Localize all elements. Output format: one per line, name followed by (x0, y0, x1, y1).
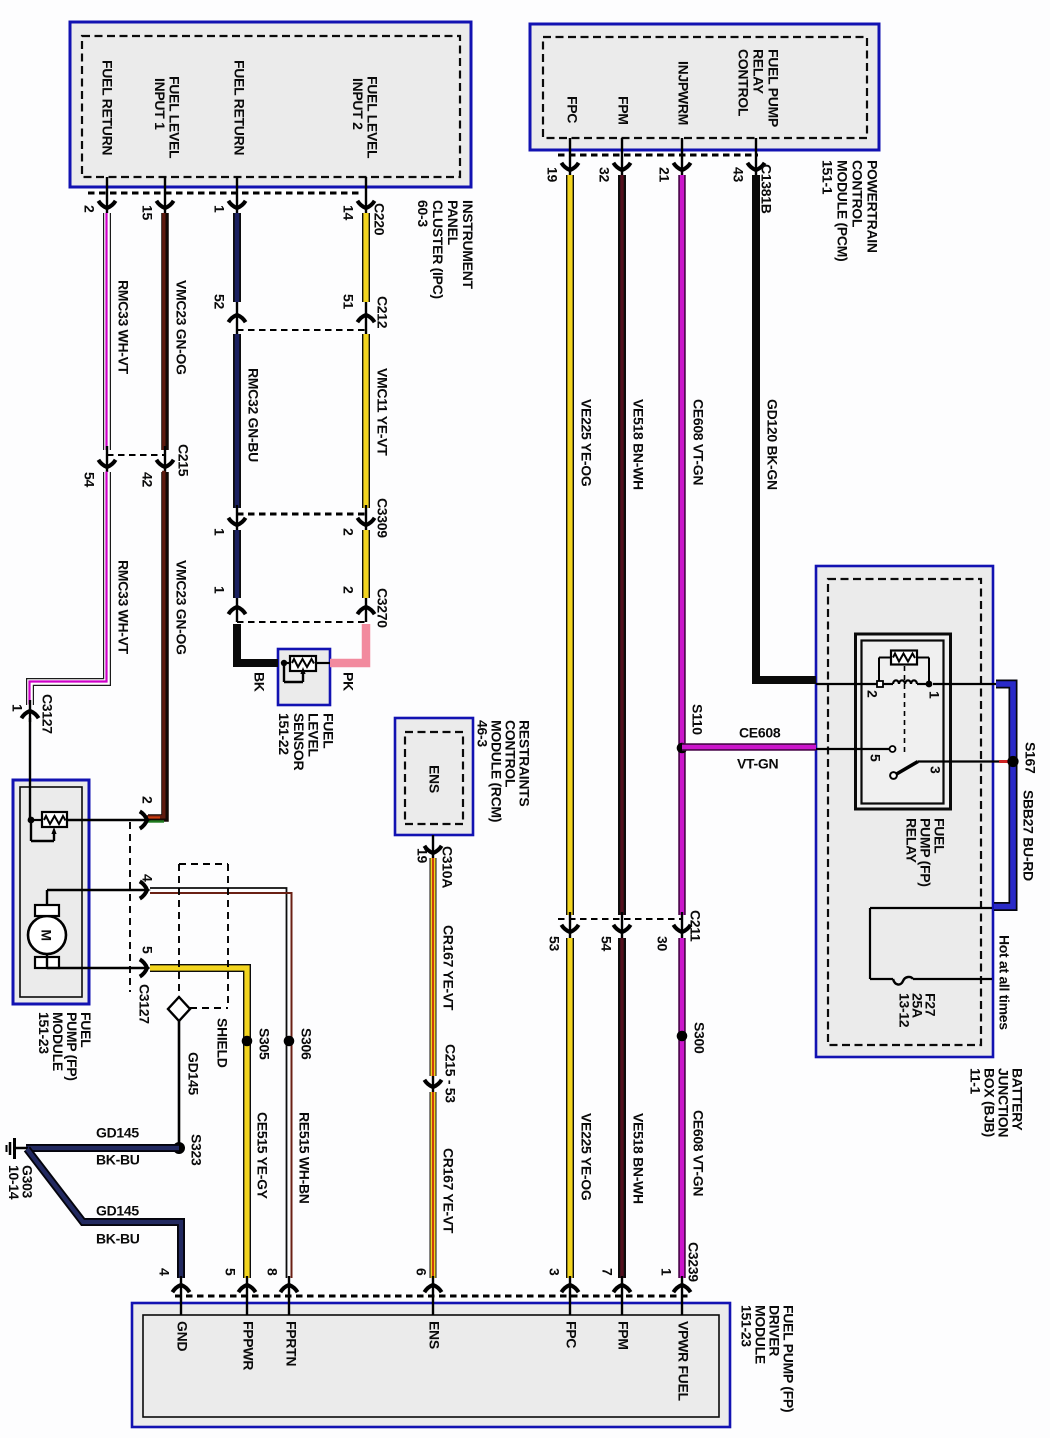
svg-text:FPC: FPC (564, 96, 580, 123)
module box: Fuel Pump (FP) Module (13, 780, 89, 1004)
svg-text:INJPWRM: INJPWRM (675, 61, 691, 125)
svg-text:3: 3 (546, 1268, 562, 1276)
wire CE608 segment break at C211 (681, 912, 683, 940)
connector arrow FPDM GND (172, 1281, 189, 1292)
connector C212 dashed line (237, 329, 366, 331)
wire stub into FPDM FPRTN (288, 1276, 290, 1315)
connector arrow C211 pin 53 (561, 925, 578, 936)
svg-text:54: 54 (598, 936, 614, 951)
FP module junction dot at resistor (30, 819, 42, 821)
connector arrow C211 pin 54 (613, 925, 630, 936)
connector arrow RCM pin 19 (424, 846, 441, 857)
wire VMC11 YE-VT segment C212 to C3309 (362, 334, 370, 508)
wire stub into FPDM GND (180, 1276, 182, 1315)
svg-text:RMC33 WH-VT: RMC33 WH-VT (115, 280, 131, 375)
connector C211 dashed line (558, 918, 682, 920)
wire stub into FPDM FPM (621, 1276, 623, 1315)
wire CE608 VT-GN branch to relay (682, 743, 816, 751)
svg-text:GD145: GD145 (96, 1203, 139, 1219)
wire CE515 YE-GY from FP module pin 5 (150, 968, 247, 1278)
svg-text:C211: C211 (687, 910, 703, 942)
svg-text:FUEL PUMP: FUEL PUMP (765, 49, 781, 127)
svg-text:CLUSTER (IPC): CLUSTER (IPC) (430, 200, 446, 299)
svg-text:PK: PK (340, 672, 356, 691)
wire BU-RD red stripe stub at S167 (999, 760, 1008, 763)
fuse F27 25A (870, 907, 992, 909)
wire VMC11 YE-VT segment to C212 (362, 213, 370, 302)
svg-text:2: 2 (340, 586, 356, 594)
svg-text:CR167 YE-VT: CR167 YE-VT (440, 925, 456, 1011)
svg-text:S167: S167 (1022, 742, 1038, 774)
svg-text:VE518 BN-WH: VE518 BN-WH (630, 399, 646, 490)
svg-text:SHIELD: SHIELD (214, 1018, 230, 1068)
wire CE608 VT-GN upper segment (678, 175, 686, 915)
svg-text:13-12: 13-12 (896, 993, 912, 1028)
svg-text:14: 14 (340, 205, 356, 220)
relay switch terminal pin 5 (890, 746, 896, 752)
svg-text:FUEL RETURN: FUEL RETURN (99, 60, 115, 155)
svg-text:GD145: GD145 (96, 1125, 139, 1141)
relay resistor link left (879, 657, 891, 659)
svg-text:C310A: C310A (439, 846, 455, 888)
connector arrow C3127 pin 5 (140, 959, 151, 976)
svg-text:RE515 WH-BN: RE515 WH-BN (296, 1112, 312, 1204)
module box: Instrument Panel Cluster (IPC) (70, 22, 471, 187)
svg-text:32: 32 (596, 167, 612, 182)
wire RMC32 GN-BU segment C3309 to C3270 (233, 530, 241, 598)
wire GD145 BK-BU to FPDM GND (27, 1149, 181, 1278)
svg-text:42: 42 (139, 472, 155, 487)
connector arrow C3309 pin 2 (357, 518, 374, 529)
relay coil (inductor) (893, 680, 917, 684)
svg-text:INPUT 2: INPUT 2 (350, 78, 366, 130)
relay coil feed line from GD120 (816, 683, 877, 685)
svg-text:C220: C220 (371, 203, 387, 236)
svg-text:CE608: CE608 (739, 725, 781, 741)
svg-text:S323: S323 (188, 1134, 204, 1166)
connector arrow C215 pin 54 (98, 460, 115, 471)
shield drain diamond (168, 997, 190, 1021)
relay coil terminal pin 1 (926, 681, 933, 688)
module box: Restraints Control Module (RCM) (395, 718, 473, 835)
wire CR167 YE-VT upper segment (430, 858, 437, 1076)
wire VMC11 YE-VT segment C3309 to C3270 (362, 530, 370, 598)
connector arrow IPC pin 14 (357, 201, 374, 212)
connector arrow FPDM FPM (613, 1281, 630, 1292)
wire stub IPC pin 14 (365, 177, 367, 213)
svg-text:VPWR FUEL: VPWR FUEL (675, 1321, 691, 1401)
connector arrow FPDM ENS (424, 1281, 441, 1292)
module box: Powertrain Control Module (PCM) (530, 24, 879, 150)
svg-text:C215 - 53: C215 - 53 (442, 1044, 458, 1103)
connector arrow FPDM FPPWR (238, 1281, 255, 1292)
svg-text:GND: GND (174, 1321, 190, 1351)
svg-text:3: 3 (927, 766, 943, 774)
splice S305 (242, 1036, 253, 1047)
svg-text:C1381B: C1381B (758, 164, 774, 214)
svg-text:VMC11 YE-VT: VMC11 YE-VT (374, 368, 390, 456)
svg-text:151-23: 151-23 (738, 1305, 754, 1347)
svg-text:51: 51 (340, 294, 356, 309)
svg-text:ENS: ENS (426, 765, 442, 793)
wire CE608 VT-GN lower segment (678, 938, 686, 1278)
wire RMC32 GN-BU segment to C212 (233, 213, 241, 302)
svg-text:21: 21 (656, 167, 672, 182)
svg-text:CONTROL: CONTROL (735, 49, 751, 117)
connector arrow PCM pin 43 (747, 163, 764, 174)
connector arrow C3309 pin 1 (228, 518, 245, 529)
connector arrow FPDM VPWR (673, 1281, 690, 1292)
svg-text:ENS: ENS (426, 1321, 442, 1349)
svg-text:1: 1 (926, 691, 942, 699)
svg-text:6: 6 (413, 1268, 429, 1276)
svg-text:M: M (39, 929, 55, 940)
svg-text:2: 2 (139, 796, 155, 804)
svg-text:CE608 VT-GN: CE608 VT-GN (690, 1110, 706, 1196)
splice S323 (173, 1142, 185, 1154)
wire into FP module pin 1 (29, 718, 31, 820)
connector C3239/FPDM dashed line (175, 1295, 690, 1298)
svg-text:POWERTRAIN: POWERTRAIN (864, 160, 880, 253)
relay pin 3 line (918, 760, 999, 762)
svg-text:VT-GN: VT-GN (737, 756, 778, 772)
wire RMC32 GN-BU segment C212 to C3309 (233, 334, 241, 508)
connector arrow PCM pin 21 (673, 163, 690, 174)
svg-text:FPM: FPM (615, 96, 631, 125)
svg-text:GD145: GD145 (185, 1052, 201, 1095)
wire stub into FPDM FPC (569, 1276, 571, 1315)
wire stub IPC pin 2 (106, 177, 108, 213)
svg-text:5: 5 (867, 754, 883, 762)
connector arrow IPC pin 2 (98, 201, 115, 212)
connector arrow C3127 pin 2 (140, 811, 151, 828)
wire stub PCM pin 43 (755, 138, 757, 175)
connector arrow IPC pin 1 (228, 201, 245, 212)
svg-text:1: 1 (211, 586, 227, 594)
wire BK black to fuel level sensor (237, 624, 278, 663)
connector arrow C212 pin 52 (228, 311, 245, 322)
svg-text:46-3: 46-3 (474, 720, 490, 747)
svg-text:INPUT 1: INPUT 1 (152, 78, 168, 130)
svg-text:C212: C212 (374, 296, 390, 329)
svg-text:53: 53 (546, 936, 562, 951)
relay coil terminal pin 2 (877, 681, 883, 687)
svg-text:S110: S110 (689, 704, 705, 735)
connector C220 dashed line (88, 192, 362, 195)
svg-text:7: 7 (599, 1268, 615, 1276)
wire VE518 segment break at C211 (621, 912, 623, 940)
svg-text:151-23: 151-23 (36, 1012, 52, 1054)
svg-text:PANEL: PANEL (445, 200, 461, 246)
svg-text:52: 52 (211, 294, 227, 309)
svg-text:FUEL RETURN: FUEL RETURN (231, 60, 247, 155)
fuel level sensor resistor (290, 656, 316, 671)
connector arrow IPC pin 15 (156, 201, 173, 212)
wire GD145 BK-BU to ground G303 (26, 1144, 179, 1152)
wire SBB27 BU-RD (994, 684, 1013, 907)
svg-text:30: 30 (654, 936, 670, 951)
svg-text:SBB27 BU-RD: SBB27 BU-RD (1020, 790, 1036, 881)
svg-text:60-3: 60-3 (415, 200, 431, 227)
wire stub IPC pin 1 (236, 177, 238, 213)
svg-text:1: 1 (9, 704, 25, 712)
svg-text:CE515 YE-GY: CE515 YE-GY (254, 1112, 270, 1200)
svg-text:43: 43 (730, 167, 746, 182)
fuel level sensor wiper (284, 662, 290, 664)
wire stub PCM pin 32 (621, 138, 623, 175)
wire RMC33 WH-VT upper segment (103, 213, 111, 450)
splice S306 (284, 1036, 295, 1047)
connector C3270 dashed line (237, 621, 366, 623)
svg-text:C3127: C3127 (136, 984, 152, 1024)
shield dashed outline (178, 864, 180, 997)
relay switch blade (894, 762, 918, 776)
wire stub IPC pin 15 (164, 177, 166, 213)
wire GD120 BK-GN (756, 175, 816, 680)
wire stub into FPDM VPWR (681, 1276, 683, 1315)
wire RE515 WH-BN pair from FP module pin 4 (150, 888, 287, 1278)
connector arrow C215 pin 42 (156, 460, 173, 471)
svg-text:VE225 YE-OG: VE225 YE-OG (578, 399, 594, 487)
svg-text:2: 2 (864, 690, 880, 698)
shield drain wire GD145 (178, 1021, 181, 1145)
svg-text:10-14: 10-14 (6, 1165, 22, 1200)
svg-text:CR167 YE-VT: CR167 YE-VT (440, 1148, 456, 1234)
relay suppression resistor (891, 651, 917, 665)
wire VE225 YE-OG lower segment (566, 938, 574, 1278)
connector arrow FPDM FPC (561, 1281, 578, 1292)
svg-text:VMC23 GN-OG: VMC23 GN-OG (173, 560, 189, 655)
svg-text:FUEL: FUEL (320, 713, 336, 749)
svg-text:C3270: C3270 (374, 588, 390, 628)
connector C3309 dashed line (237, 513, 366, 516)
svg-text:1: 1 (211, 205, 227, 213)
svg-text:BK-BU: BK-BU (96, 1231, 140, 1247)
svg-text:S306: S306 (298, 1028, 314, 1060)
connector arrow FPDM FPRTN (280, 1281, 297, 1292)
connector arrow C211 pin 30 (673, 925, 690, 936)
wire VMC23 GN-OG upper segment (161, 213, 169, 450)
svg-text:C3127: C3127 (39, 694, 55, 734)
FP module pin 2 line (67, 819, 146, 822)
svg-text:S305: S305 (256, 1028, 272, 1060)
wire VE225 YE-OG upper segment (566, 175, 574, 915)
svg-text:151-1: 151-1 (819, 160, 835, 195)
svg-text:MODULE (PCM): MODULE (PCM) (834, 160, 850, 261)
svg-text:2: 2 (81, 205, 97, 213)
svg-text:5: 5 (222, 1268, 238, 1276)
splice S110 (677, 743, 688, 754)
wire VE225 segment break at C211 (569, 912, 571, 940)
connector C215 dashed line (107, 454, 165, 456)
wire CR167 YE-VT lower segment (430, 1092, 437, 1278)
svg-text:CONTROL: CONTROL (849, 160, 865, 228)
wire stub PCM pin 19 (569, 138, 571, 175)
svg-text:54: 54 (81, 472, 97, 487)
module box: Fuel Level Sensor (278, 649, 330, 705)
wire VMC23 GN-OG lower segment (148, 472, 165, 818)
svg-text:VMC23 GN-OG: VMC23 GN-OG (173, 280, 189, 375)
svg-text:2: 2 (340, 528, 356, 536)
svg-text:5: 5 (139, 946, 155, 954)
wire stub PCM pin 21 (681, 138, 683, 175)
svg-text:RELAY: RELAY (903, 818, 919, 864)
svg-text:S300: S300 (691, 1022, 707, 1054)
splice S300 (677, 1031, 688, 1042)
motor M of fuel pump (28, 916, 66, 954)
svg-text:19: 19 (414, 848, 430, 863)
svg-text:GD120 BK-GN: GD120 BK-GN (764, 399, 780, 490)
wire stub RCM pin 19 (432, 835, 434, 858)
svg-text:CE608 VT-GN: CE608 VT-GN (690, 399, 706, 485)
FP module wiper arrow (30, 820, 32, 841)
FP module internal resistor (fuel pump check valve resistor) (42, 812, 67, 827)
module box: Fuel Pump (FP) Driver Module (132, 1303, 730, 1427)
svg-text:SENSOR: SENSOR (291, 713, 307, 771)
ground symbol G303 (15, 1147, 28, 1150)
svg-text:4: 4 (156, 1268, 172, 1276)
svg-text:C3309: C3309 (374, 498, 390, 538)
connector C3127 dashed line (129, 822, 131, 992)
svg-text:15: 15 (139, 205, 155, 220)
svg-text:INSTRUMENT: INSTRUMENT (460, 200, 476, 290)
relay box FP relay (856, 634, 951, 809)
wire VE518 BN-WH lower segment (618, 938, 626, 1278)
svg-text:RMC32 GN-BU: RMC32 GN-BU (245, 368, 261, 462)
FP module pin 5 line (46, 954, 48, 968)
connector arrow PCM pin 32 (613, 163, 630, 174)
connector C215-53 inline arrow (432, 1076, 434, 1094)
connector arrow C3270 pin 2 (357, 603, 374, 614)
svg-text:RMC33 WH-VT: RMC33 WH-VT (115, 560, 131, 655)
svg-text:151-22: 151-22 (276, 713, 292, 755)
wire VE518 BN-WH upper segment (618, 175, 626, 915)
svg-text:1: 1 (658, 1268, 674, 1276)
wire RMC33 vertical to C3127 (29, 700, 31, 722)
module box: Battery Junction Box (BJB) (816, 566, 993, 1057)
connector arrow C3127 pin 4 (140, 881, 151, 898)
svg-text:FPRTN: FPRTN (283, 1321, 299, 1366)
svg-text:C215: C215 (175, 444, 191, 477)
splice S167 (1007, 756, 1018, 767)
connector arrow PCM pin 19 (561, 163, 578, 174)
svg-text:RELAY: RELAY (750, 49, 766, 95)
svg-text:BK-BU: BK-BU (96, 1152, 140, 1168)
relay pin 5 line (816, 748, 889, 750)
svg-text:C3239: C3239 (685, 1242, 701, 1282)
svg-text:19: 19 (544, 167, 560, 182)
svg-text:VE225 YE-OG: VE225 YE-OG (578, 1113, 594, 1201)
wire PK pink to fuel level sensor (330, 624, 366, 663)
svg-text:4: 4 (139, 874, 155, 882)
wire RMC33 WH-VT lower segment (30, 472, 107, 705)
connector arrow C3270 pin 1 (228, 603, 245, 614)
wire link coil pin1 to SBB27 (933, 683, 998, 685)
wire stub into FPDM FPPWR (246, 1276, 248, 1315)
svg-text:FPPWR: FPPWR (240, 1321, 256, 1370)
relay resistor link right (917, 657, 929, 659)
svg-text:8: 8 (264, 1268, 280, 1276)
relay armature dashed linkage (904, 666, 906, 752)
connector arrow C212 pin 51 (357, 311, 374, 322)
wire stub into FPDM ENS (432, 1276, 434, 1315)
connector C1381B dashed line (558, 154, 758, 157)
fuel level sensor output line (316, 662, 330, 664)
svg-text:VE518 BN-WH: VE518 BN-WH (630, 1113, 646, 1204)
svg-text:FPM: FPM (615, 1321, 631, 1350)
connector arrow C3127 pin 1 (21, 707, 38, 718)
svg-text:Hot at all times: Hot at all times (996, 935, 1012, 1030)
FP module pin 4 line (46, 890, 48, 905)
svg-text:FPC: FPC (563, 1321, 579, 1348)
svg-text:11-1: 11-1 (967, 1068, 983, 1095)
svg-text:BK: BK (251, 672, 267, 692)
svg-text:1: 1 (211, 528, 227, 536)
